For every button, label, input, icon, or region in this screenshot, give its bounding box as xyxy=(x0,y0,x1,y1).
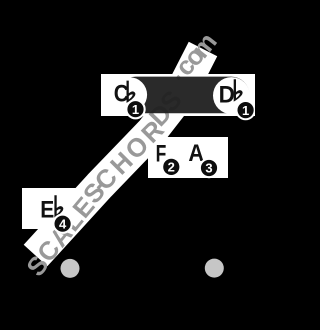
F/A white patch xyxy=(148,137,228,178)
svg-text:4: 4 xyxy=(59,216,67,231)
svg-text:C: C xyxy=(114,80,129,107)
Cb white disc (left end of barre) xyxy=(112,77,147,112)
svg-text:D: D xyxy=(219,82,235,109)
svg-text:E: E xyxy=(40,197,54,224)
note label Eb xyxy=(40,195,63,223)
Db white disc xyxy=(213,77,250,114)
svg-text:1: 1 xyxy=(132,102,139,117)
finger badge 1 (Db) xyxy=(235,100,255,120)
watermark text SCALES-CHORDS.com xyxy=(20,27,223,282)
finger badge 2 (F) xyxy=(161,157,181,177)
svg-text:2: 2 xyxy=(168,160,175,175)
watermark band xyxy=(36,49,204,256)
open string dot left xyxy=(61,259,80,278)
svg-text:1: 1 xyxy=(242,103,249,118)
svg-text:3: 3 xyxy=(205,161,212,176)
finger badge 1 (Cb) xyxy=(125,99,145,119)
note label Db xyxy=(219,79,243,108)
note label Cb xyxy=(114,80,136,107)
finger badge 3 (A) xyxy=(199,158,219,178)
open string dot right xyxy=(205,259,224,278)
fret row white band (Cb..Db row) xyxy=(101,74,255,116)
barre bar xyxy=(118,77,250,114)
finger badge 4 (Eb) xyxy=(52,214,72,234)
Eb white patch xyxy=(22,188,80,229)
